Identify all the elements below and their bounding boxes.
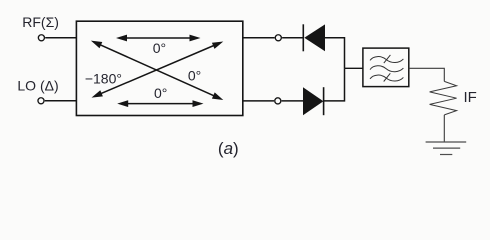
filter wave 1 slash	[384, 55, 391, 63]
filter wave 1	[370, 57, 403, 63]
wire resistor to ground	[443, 115, 445, 142]
wire D2 to junction	[324, 68, 345, 101]
filter FL1 box	[363, 48, 409, 87]
filter wave 3	[370, 75, 403, 81]
terminal RF	[38, 35, 44, 41]
diode D1 cathode bar	[302, 24, 304, 51]
diode D2 cathode bar	[323, 87, 325, 115]
ground line 2	[433, 147, 460, 149]
svg-text:0°: 0°	[153, 40, 166, 56]
svg-text:IF: IF	[464, 89, 477, 106]
diode D1 triangle	[304, 24, 325, 51]
diode D2 triangle	[303, 87, 323, 115]
svg-text:0°: 0°	[188, 68, 201, 84]
wire to diode D1	[282, 37, 304, 39]
wire top output	[243, 37, 275, 39]
arrow diagonal upper-left to lower-right	[91, 41, 223, 100]
filter wave 2	[370, 66, 403, 72]
wire junction to filter	[345, 67, 363, 69]
wire bottom output	[243, 100, 274, 102]
wire filter to IF load	[409, 68, 445, 81]
svg-text:RF(Σ): RF(Σ)	[22, 14, 59, 30]
resistor IF	[430, 81, 457, 115]
filter wave 3 slash	[384, 73, 391, 81]
hybrid coupler box U1	[76, 21, 242, 115]
svg-text:0°: 0°	[154, 85, 167, 101]
svg-text:LO (Δ): LO (Δ)	[17, 77, 58, 93]
ground line 1	[426, 141, 467, 143]
arrow bottom horizontal 0°	[117, 100, 203, 107]
svg-text:−180°: −180°	[85, 70, 122, 86]
svg-text:(a): (a)	[218, 139, 239, 158]
terminal top output	[275, 35, 281, 41]
ground line 3	[440, 154, 452, 156]
wire LO to hybrid	[45, 100, 77, 102]
arrow top horizontal 0°	[116, 35, 201, 42]
terminal LO	[38, 98, 44, 104]
wire RF to hybrid	[45, 37, 76, 39]
arrow diagonal lower-left to upper-right	[92, 42, 224, 98]
wire to diode D2	[282, 100, 304, 102]
terminal bottom output	[275, 98, 281, 104]
wire D1 to junction	[325, 38, 345, 69]
